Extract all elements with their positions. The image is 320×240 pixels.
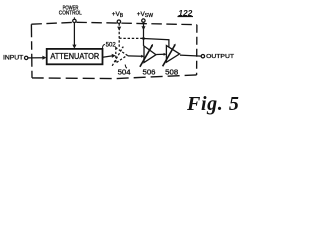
dashed enclosure box left edge: [30, 24, 33, 78]
svg-text:506: 506: [143, 68, 156, 77]
label 122 underline: [178, 16, 194, 18]
wire supply rail to amp 508: [144, 39, 169, 48]
node OUTPUT terminal circle: [201, 55, 204, 58]
wire amp 504 to amp 506: [128, 55, 142, 57]
svg-text:CONTROL: CONTROL: [59, 11, 83, 17]
dashed enclosure box right edge: [196, 25, 198, 75]
node +VB terminal circle: [117, 20, 120, 23]
gain arrow through amp 504 (dashed): [112, 47, 123, 66]
wire attenuator output to amp 504: [103, 56, 112, 57]
svg-text:504: 504: [118, 68, 131, 77]
junction dot on +VSW line: [142, 37, 145, 40]
dashed enclosure box top edge: [31, 22, 197, 24]
wire +VB dashed drop: [118, 23, 120, 48]
wire input lead: [28, 57, 43, 59]
dashed enclosure box bottom edge: [32, 75, 197, 79]
amplifier 506: [144, 46, 156, 63]
svg-text:+VB: +VB: [112, 11, 124, 19]
svg-text:502: 502: [106, 42, 116, 49]
svg-text:508: 508: [165, 68, 178, 77]
svg-text:Fig. 5: Fig. 5: [186, 93, 240, 115]
node +VSW terminal circle: [142, 19, 145, 22]
amplifier 504 (dashed standby amp): [116, 48, 127, 63]
gain arrow through amp 506: [140, 45, 152, 67]
wire POWER CONTROL drop to attenuator: [73, 23, 75, 46]
wire +VSW drop to amp 506: [143, 22, 145, 46]
svg-text:ATTENUATOR: ATTENUATOR: [50, 52, 99, 61]
svg-text:INPUT: INPUT: [3, 54, 23, 61]
label 504 leader tick: [125, 65, 127, 69]
label 502 leader hook: [102, 44, 104, 48]
node INPUT terminal circle: [25, 56, 28, 59]
node POWER CONTROL terminal circle: [73, 19, 76, 22]
wire dashed bias branch between +VB line and +VSW line: [119, 37, 143, 39]
svg-text:OUTPUT: OUTPUT: [206, 54, 234, 60]
svg-text:122: 122: [178, 8, 192, 18]
amplifier 508: [166, 46, 179, 63]
wire amp 506 to amp 508: [156, 53, 164, 55]
gain arrow through amp 508: [163, 45, 175, 66]
wire output lead: [180, 55, 201, 56]
attenuator block 502: [47, 49, 103, 64]
svg-text:+VSW: +VSW: [137, 11, 153, 19]
